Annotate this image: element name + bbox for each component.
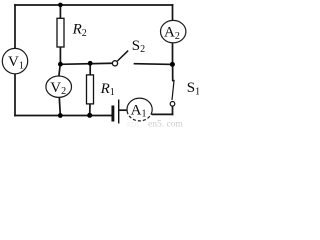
- wire R2 bottom lead to node: [59, 47, 61, 64]
- svg-text:en5. com: en5. com: [148, 120, 183, 129]
- switch S2 lever: [117, 51, 128, 61]
- wire S1 bottom lead: [172, 106, 174, 114]
- switch S1 contact circle: [170, 102, 175, 107]
- svg-text:azu: azu: [126, 120, 139, 129]
- junction node R1 bottom: [87, 113, 92, 118]
- wire top: [15, 4, 173, 6]
- junction node R1 top: [88, 61, 93, 66]
- wire S2 to node right: [135, 63, 173, 66]
- voltmeter V1: [2, 48, 27, 73]
- battery cell: short thick negative plate: [111, 106, 114, 122]
- wire middle horizontal: [60, 63, 111, 64]
- wire R2 top lead: [59, 5, 61, 18]
- wire A2 bottom lead: [172, 43, 174, 65]
- wire S1 top lead: [172, 64, 174, 80]
- resistor R1: [87, 75, 94, 104]
- battery cell: long thin positive plate: [118, 100, 120, 124]
- junction node V2 bottom: [58, 113, 63, 118]
- wire R1 top lead: [89, 63, 91, 75]
- wire A2 top lead: [172, 5, 174, 21]
- wire left lower: [14, 74, 16, 116]
- switch S2 contact circle: [112, 61, 117, 66]
- wire V2 bottom lead: [59, 97, 60, 115]
- watermark fragment over A1 arc: [128, 114, 151, 121]
- ammeter A2: [161, 20, 186, 42]
- junction node R2/V2/mid wire: [58, 62, 63, 67]
- wire left upper: [14, 5, 16, 49]
- wire R1 bottom lead: [89, 104, 91, 115]
- wire A1 to battery: [119, 109, 127, 111]
- wire bottom: [15, 115, 112, 117]
- wire V2 top lead: [59, 64, 60, 76]
- junction node right (A2/S2/S1): [170, 62, 175, 67]
- ammeter A1: [127, 98, 152, 121]
- wire S1 to A1: [152, 113, 173, 115]
- junction node at top of R2 branch: [58, 3, 63, 8]
- switch S1 lever: [172, 80, 174, 100]
- resistor R2: [57, 18, 64, 47]
- voltmeter V2: [46, 76, 72, 97]
